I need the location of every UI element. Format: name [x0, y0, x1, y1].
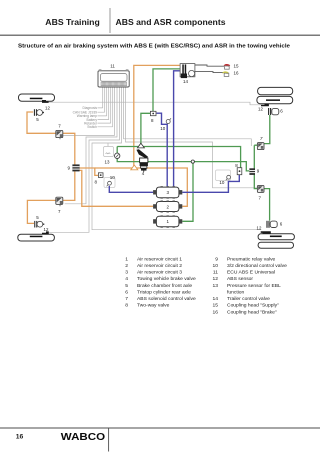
brake chamber 5 front-left top: [34, 109, 44, 122]
svg-text:15: 15: [213, 303, 219, 309]
svg-text:Coupling head "Brake": Coupling head "Brake": [227, 309, 277, 315]
svg-text:ABS sensor: ABS sensor: [227, 276, 253, 282]
svg-text:15: 15: [234, 63, 240, 68]
air reservoir 1: [153, 216, 182, 228]
wire ECU to valve 7 top-right: [124, 87, 252, 146]
wire orange riser to trailer control valve 14: [134, 65, 180, 168]
tristop cylinder 6 bottom-right: [266, 221, 282, 228]
wire orange main line to reservoir 2 right port: [95, 168, 188, 206]
svg-text:14: 14: [213, 296, 219, 302]
pressure sensor 13: [104, 147, 120, 165]
tire front-left: [19, 94, 55, 101]
svg-text:Air reservoir circuit 3: Air reservoir circuit 3: [137, 270, 182, 276]
svg-text:3: 3: [125, 270, 128, 276]
blue circuit-3 pipes: [109, 71, 239, 193]
svg-text:16: 16: [213, 309, 219, 315]
3/2 valve 10 right: [219, 175, 230, 185]
two-way valve 8 right: [235, 163, 242, 175]
wire orange relay 9 to reservoir 2 left port: [80, 170, 154, 206]
junction triangle orange (valve 4 inlet): [131, 165, 138, 170]
svg-text:Coupling head "Supply": Coupling head "Supply": [227, 303, 279, 309]
svg-text:6: 6: [125, 289, 128, 295]
wire green lower line to relay 9 right: [117, 147, 249, 171]
towing vehicle brake valve 4: [136, 149, 148, 176]
wire ECU to bottom-left sensor: [49, 87, 120, 232]
svg-text:Tristop cylinder rear axle: Tristop cylinder rear axle: [137, 289, 191, 295]
svg-text:12: 12: [45, 106, 50, 111]
wire green valve 7 TR to tristop 6 TR: [254, 115, 269, 145]
tire rear-left (bottom): [18, 234, 55, 241]
svg-text:12: 12: [257, 226, 262, 231]
ECU U11: [98, 64, 129, 87]
air reservoir 3: [153, 187, 182, 199]
ABS sensor 12 bottom-left: [42, 227, 49, 234]
3/2 valve 10 left: [107, 175, 116, 186]
3/2 valve 10 upper: [160, 118, 171, 131]
ECU label dashes: [98, 108, 113, 127]
svg-text:5: 5: [125, 283, 128, 289]
pipes to coupling heads: [195, 65, 224, 73]
svg-text:Switch: Switch: [87, 125, 97, 129]
wire ECU to bottom-right sensor: [92, 87, 261, 230]
grey electric lines: [49, 87, 262, 232]
wire orange relay 9 down to valve 7 BL and chamber 5 BL: [27, 171, 74, 223]
wire green relay 9R chain down to valve 7 BR and tristop 6 BR: [254, 145, 269, 220]
svg-text:12: 12: [258, 106, 263, 111]
svg-text:14: 14: [183, 79, 189, 84]
svg-text:ABS solenoid control valve: ABS solenoid control valve: [137, 296, 196, 302]
svg-text:4: 4: [125, 276, 128, 282]
tristop cylinder 6 top-right: [268, 108, 283, 115]
wire green reservoir 1 to junction: [182, 162, 193, 222]
svg-text:Structure of an air braking sy: Structure of an air braking system with …: [18, 44, 291, 50]
svg-text:11: 11: [213, 270, 218, 276]
wire blue 10 left to reservoir 3 left port: [109, 186, 153, 192]
svg-text:12: 12: [44, 227, 49, 232]
ABS sensor 12 top-right: [258, 104, 269, 112]
svg-text:7: 7: [125, 296, 128, 302]
svg-text:10: 10: [110, 175, 116, 180]
svg-text:Brake chamber front axle: Brake chamber front axle: [137, 283, 192, 289]
svg-text:16: 16: [234, 71, 240, 76]
two-way valve 8 upper: [150, 111, 156, 123]
svg-text:Air reservoir circuit 1: Air reservoir circuit 1: [137, 256, 182, 262]
junction triangle on green (valve 4 inlet): [137, 143, 144, 148]
wire ECU to valve 7 bottom-left: [65, 87, 117, 204]
legend col1 numbers: [125, 256, 128, 308]
wire ECU to pressure sensor 13: [107, 143, 109, 147]
svg-text:Pressure sensor for EBL: Pressure sensor for EBL: [227, 283, 281, 289]
legend col2 numbers: [213, 256, 219, 315]
svg-text:10: 10: [213, 263, 219, 269]
header rule: [0, 34, 320, 36]
wire green upper line to two-way valve 8 right: [117, 147, 240, 168]
ECU harness verticals: [103, 87, 113, 127]
svg-text:12: 12: [213, 276, 219, 282]
wire ECU to valve 7 top-left: [63, 87, 115, 135]
svg-text:3/2 directional control valve: 3/2 directional control valve: [227, 263, 287, 269]
svg-text:ABS and ASR components: ABS and ASR components: [116, 17, 226, 27]
ABS sensor 12 bottom-right: [257, 226, 271, 234]
svg-text:ECU ABS E Universal: ECU ABS E Universal: [227, 270, 275, 276]
ABS sensor 12 front-left: [42, 100, 50, 111]
svg-text:Towing vehicle brake valve: Towing vehicle brake valve: [137, 276, 196, 282]
wire green feed to trailer control valve 14: [153, 69, 180, 112]
svg-text:ABS Training: ABS Training: [45, 17, 99, 27]
air reservoir 2: [153, 201, 182, 212]
pneumatic relay valve 9 right: [249, 168, 259, 175]
svg-text:Trailer control valve: Trailer control valve: [227, 296, 270, 302]
ABS solenoid valve 7 bottom-right: [257, 185, 264, 200]
svg-text:1: 1: [125, 256, 128, 262]
svg-text:9: 9: [215, 256, 218, 262]
svg-text:13: 13: [105, 160, 111, 165]
svg-text:Air reservoir circuit 2: Air reservoir circuit 2: [137, 263, 182, 269]
svg-text:Two-way valve: Two-way valve: [137, 303, 170, 309]
svg-text:WABCO: WABCO: [61, 432, 105, 443]
ABS solenoid valve 7 top-right: [257, 136, 264, 150]
wire orange brake chamber 5 TL to relay 9: [27, 112, 75, 165]
svg-text:2: 2: [125, 263, 128, 269]
wire green branch to two-way valve 8 upper: [141, 113, 151, 146]
electric box around 10 left: [104, 178, 115, 188]
brake chamber 5 front-left bottom: [34, 215, 44, 228]
orange circuit-2 pipes: [27, 65, 187, 223]
ABS solenoid valve 7 bottom-left: [56, 197, 63, 214]
ECU connection labels: [73, 106, 98, 129]
electric box around 10 right: [216, 170, 231, 181]
svg-text:function: function: [227, 289, 245, 295]
svg-text:10: 10: [219, 180, 225, 185]
green circuit-1 pipes: [117, 69, 270, 221]
wire blue trailer valve 14 down to reservoir 3: [174, 71, 180, 188]
junction node on green line: [191, 160, 194, 163]
pneumatic relay valve 9 left: [68, 164, 80, 171]
wire blue reservoir 3 right to 10 right and 8 right: [182, 175, 239, 193]
svg-text:Pneumatic relay valve: Pneumatic relay valve: [227, 256, 276, 262]
wire blue two-way 8 upper via 10 upper to reservoir 3: [157, 113, 168, 187]
two-way valve 8 left: [95, 173, 104, 185]
header separator vertical line: [109, 8, 111, 33]
svg-text:11: 11: [110, 64, 115, 69]
svg-text:10: 10: [160, 126, 166, 131]
svg-text:8: 8: [125, 303, 128, 309]
footer rule: [0, 427, 320, 429]
wire ECU to valve 7 bottom-right: [126, 87, 258, 188]
coupling head 15 (Supply, red): [224, 63, 239, 69]
footer vertical line: [108, 428, 110, 452]
coupling head 16 (Brake, yellow): [222, 71, 239, 77]
svg-text:16: 16: [16, 433, 24, 440]
svg-text:13: 13: [213, 283, 219, 289]
twin tires rear axle bottom-right: [258, 234, 294, 248]
ABS solenoid valve 7 top-left: [56, 123, 63, 139]
trailer control valve 14: [180, 64, 195, 84]
wire front axle sensor line: [49, 102, 262, 105]
wire orange relay 9 to two-way valve 8 left: [80, 168, 99, 175]
twin tires rear axle top-right: [257, 87, 293, 103]
